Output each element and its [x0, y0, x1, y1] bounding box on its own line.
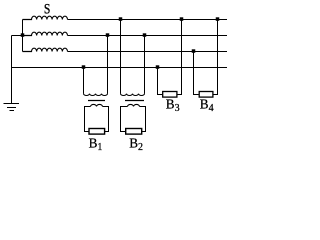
- junction dot B1 right on line 2: [106, 33, 110, 37]
- transformer B1 primary winding: [84, 94, 108, 96]
- inductor S winding 2: [23, 32, 68, 35]
- wire B2 primary right lead x=144: [144, 36, 146, 94]
- junction dot B2 left on line 1: [119, 17, 123, 21]
- wire B2 secondary right side: [140, 107, 146, 132]
- wire B1 primary left lead x=83: [83, 68, 85, 94]
- wire B3 right lead from line 1: [178, 20, 182, 95]
- junction dot B4 left on line 3: [192, 49, 196, 53]
- resistor B2 load: [126, 129, 142, 135]
- svg-text:B4: B4: [200, 96, 214, 113]
- transformer B1 core: [88, 100, 105, 102]
- wire left riser joining windings x=22: [22, 20, 24, 52]
- wire bus line 2 y=35: [68, 35, 228, 37]
- junction dot B4 right on line 1: [216, 17, 220, 21]
- inductor S winding 3: [23, 48, 68, 51]
- wire B3 left lead from line 4: [158, 68, 163, 95]
- svg-text:B1: B1: [89, 135, 103, 152]
- junction dot B3 left on line 4: [156, 65, 160, 69]
- wire B1 secondary left side: [85, 107, 91, 132]
- transformer B1 secondary winding: [91, 104, 103, 106]
- resistor B1 load: [89, 129, 105, 135]
- wire B2 secondary left side: [121, 107, 128, 132]
- inductor S winding 1: [23, 16, 68, 19]
- svg-text:S: S: [44, 0, 50, 17]
- wire B1 secondary right side: [103, 107, 109, 132]
- wire bus line 1 y=19: [68, 19, 228, 21]
- transformer B2 core: [125, 100, 144, 102]
- svg-text:B3: B3: [166, 96, 180, 113]
- junction dot B3 right on line 1: [180, 17, 184, 21]
- transformer B2 secondary winding: [128, 104, 140, 106]
- resistor B3: [163, 92, 177, 98]
- label S: [44, 0, 50, 17]
- wire ground lead x=11: [11, 36, 13, 104]
- svg-text:B2: B2: [129, 135, 143, 152]
- wire input feed y=35: [12, 35, 23, 37]
- wire B4 right lead from line 1: [213, 20, 217, 95]
- wire bus line 4 y=67: [12, 67, 228, 69]
- ground: [4, 104, 20, 111]
- wire B1 primary right lead x=107: [107, 36, 109, 94]
- resistor B4: [199, 92, 213, 98]
- junction dot B2 right on line 2: [143, 33, 147, 37]
- junction dot B1 left on line 4: [82, 65, 86, 69]
- wire B4 left lead from line 3: [194, 52, 199, 95]
- wire B2 primary left lead x=120: [120, 20, 122, 94]
- junction dot feed on winding 2 lead: [21, 33, 25, 37]
- transformer B2 primary winding: [121, 94, 145, 96]
- wire bus line 3 y=51: [68, 51, 228, 53]
